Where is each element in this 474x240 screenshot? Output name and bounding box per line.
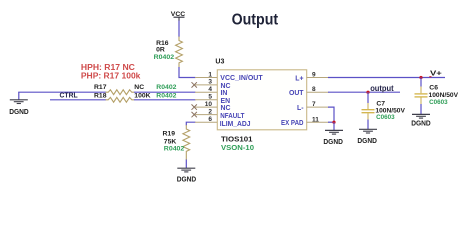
ground DGND left bbox=[9, 92, 29, 116]
svg-text:NC: NC bbox=[221, 105, 231, 112]
R19 labels bbox=[163, 131, 185, 153]
svg-text:C0603: C0603 bbox=[376, 114, 395, 121]
no-connect X pin 2 bbox=[192, 112, 197, 117]
wire DGND to R17 bbox=[19, 91, 106, 93]
svg-text:4: 4 bbox=[208, 86, 212, 93]
power VCC bbox=[171, 11, 186, 21]
svg-text:8: 8 bbox=[312, 86, 316, 93]
wire VCC to R16 bbox=[178, 21, 180, 38]
C6 labels bbox=[429, 85, 459, 106]
wire pin 11 bbox=[328, 121, 334, 123]
svg-text:75K: 75K bbox=[164, 138, 177, 145]
svg-text:10: 10 bbox=[205, 101, 213, 108]
junction at C6 bbox=[419, 76, 422, 79]
svg-text:6: 6 bbox=[208, 116, 212, 123]
svg-text:EX PAD: EX PAD bbox=[281, 120, 304, 127]
U3 right pin numbers bbox=[312, 71, 319, 123]
wire R19 to ground bbox=[185, 160, 187, 169]
R17 labels bbox=[94, 84, 177, 91]
svg-text:HPH: R17 NC: HPH: R17 NC bbox=[81, 63, 135, 72]
svg-text:U3: U3 bbox=[215, 58, 224, 65]
svg-text:EN: EN bbox=[221, 98, 231, 105]
svg-text:PHP: R17 100k: PHP: R17 100k bbox=[81, 72, 141, 81]
wire pin 9 to V+ bbox=[328, 77, 445, 79]
R18 labels bbox=[94, 93, 177, 100]
wire R18 to pin 5 bbox=[134, 99, 196, 101]
svg-text:3: 3 bbox=[208, 79, 212, 86]
svg-text:TIOS101: TIOS101 bbox=[221, 136, 253, 143]
resistor R17 bbox=[106, 90, 135, 95]
U3 left pin numbers bbox=[205, 71, 213, 123]
U3 left pin stubs bbox=[195, 78, 217, 123]
svg-text:NC: NC bbox=[134, 84, 144, 91]
svg-text:DGND: DGND bbox=[177, 177, 197, 184]
resistor R18 bbox=[106, 97, 135, 102]
svg-text:L+: L+ bbox=[295, 76, 303, 83]
capacitor C7 bbox=[362, 92, 375, 129]
junction pin 11 bbox=[332, 121, 335, 124]
wire R19 to pin 6 bbox=[186, 122, 195, 125]
svg-text:R17: R17 bbox=[94, 84, 107, 91]
svg-text:DGND: DGND bbox=[9, 109, 29, 116]
red annotation HPH/PHP bbox=[81, 63, 141, 81]
ground DGND under C6 bbox=[411, 114, 431, 127]
IC U3 body bbox=[217, 70, 306, 130]
ground DGND under pin 11 bbox=[323, 130, 343, 146]
svg-text:ILIM_ADJ: ILIM_ADJ bbox=[220, 121, 251, 128]
svg-text:V+: V+ bbox=[430, 68, 443, 77]
svg-text:CTRL: CTRL bbox=[60, 91, 79, 100]
power V+ bbox=[429, 68, 442, 77]
ground DGND under C7 bbox=[357, 129, 377, 145]
junction at C7 bbox=[366, 91, 369, 94]
svg-text:R19: R19 bbox=[163, 131, 176, 138]
svg-text:Output: Output bbox=[232, 12, 279, 29]
U3 right pin stubs bbox=[307, 78, 329, 123]
svg-text:DGND: DGND bbox=[411, 120, 431, 127]
svg-text:5: 5 bbox=[208, 94, 212, 101]
wire junction to ground bbox=[333, 122, 335, 130]
wire R17 to pin 4 bbox=[134, 91, 196, 93]
svg-text:9: 9 bbox=[312, 71, 316, 78]
svg-text:R0402: R0402 bbox=[154, 54, 175, 61]
U3 left pin names bbox=[220, 75, 264, 128]
svg-text:C7: C7 bbox=[376, 100, 385, 107]
svg-text:11: 11 bbox=[312, 116, 319, 123]
resistor R16 bbox=[176, 37, 183, 68]
svg-text:0R: 0R bbox=[156, 47, 165, 54]
no-connect X pin 10 bbox=[192, 104, 197, 109]
svg-text:C0603: C0603 bbox=[429, 99, 448, 106]
wire R16 to pin 1 bbox=[179, 67, 196, 78]
svg-text:C6: C6 bbox=[429, 85, 438, 92]
svg-text:VCC_IN/OUT: VCC_IN/OUT bbox=[220, 75, 263, 82]
svg-text:100K: 100K bbox=[134, 93, 150, 100]
no-connect X pin 3 bbox=[192, 82, 197, 87]
svg-text:7: 7 bbox=[312, 101, 316, 108]
svg-text:output: output bbox=[370, 84, 394, 93]
C7 labels bbox=[375, 100, 405, 121]
svg-text:DGND: DGND bbox=[357, 138, 377, 145]
svg-text:NC: NC bbox=[221, 83, 231, 90]
capacitor C6 bbox=[415, 78, 428, 115]
R16 labels bbox=[154, 40, 175, 61]
svg-text:VSON-10: VSON-10 bbox=[221, 145, 254, 152]
svg-text:OUT: OUT bbox=[289, 90, 304, 97]
svg-text:R0402: R0402 bbox=[156, 93, 176, 100]
svg-text:DGND: DGND bbox=[323, 139, 343, 146]
ground DGND under R19 bbox=[177, 168, 197, 183]
wire CTRL to R18 bbox=[50, 99, 106, 101]
svg-text:L-: L- bbox=[297, 105, 304, 112]
svg-text:R0402: R0402 bbox=[156, 84, 176, 91]
wire pin 8 output bbox=[328, 91, 400, 93]
svg-text:1: 1 bbox=[208, 71, 212, 78]
wire pin 7 to ground bbox=[328, 107, 334, 122]
svg-text:R18: R18 bbox=[94, 93, 107, 100]
U3 right pin names bbox=[281, 76, 304, 128]
svg-text:R0402: R0402 bbox=[164, 146, 185, 153]
svg-text:2: 2 bbox=[208, 108, 212, 115]
svg-text:NFAULT: NFAULT bbox=[220, 113, 245, 120]
resistor R19 bbox=[183, 125, 190, 160]
svg-text:IN: IN bbox=[221, 90, 228, 97]
